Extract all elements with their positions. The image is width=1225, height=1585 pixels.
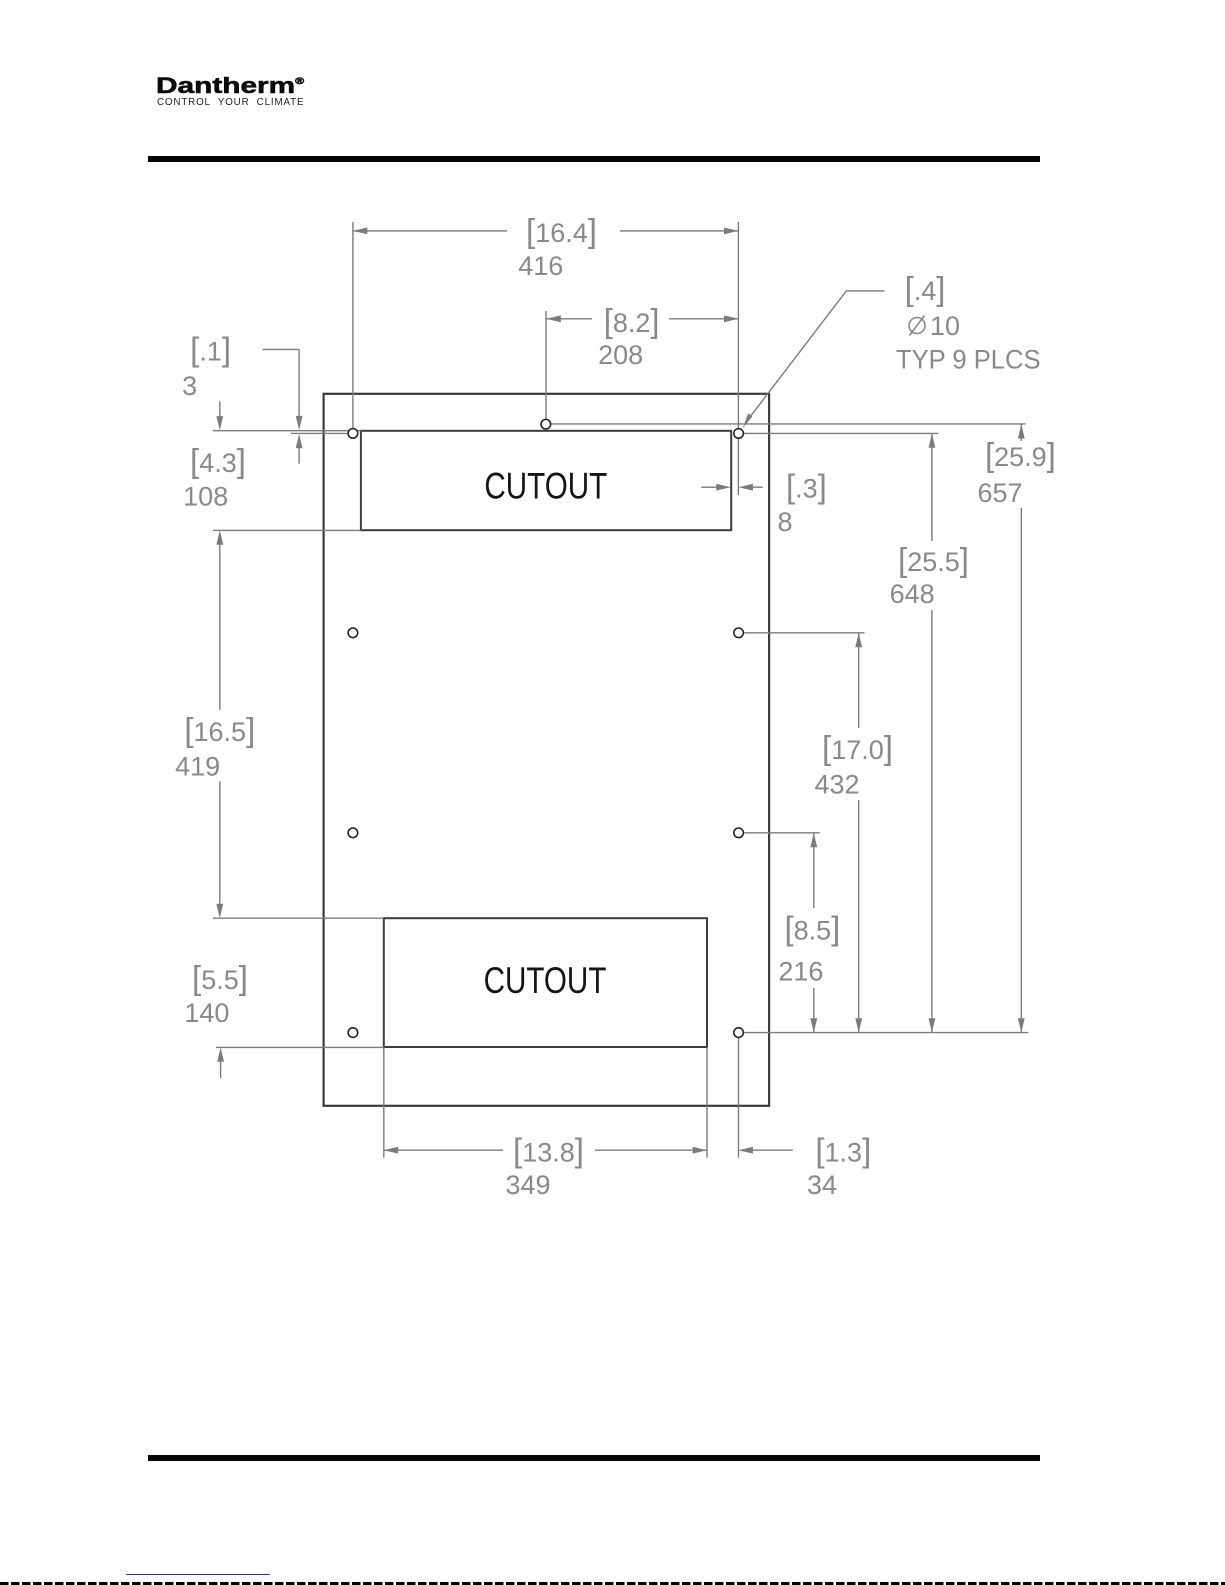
- dimension [13.8] 349 bottom: [384, 1149, 707, 1151]
- svg-text:10: 10: [930, 311, 960, 341]
- svg-text:432: 432: [814, 770, 859, 800]
- svg-text:208: 208: [598, 340, 643, 370]
- extension line: cutout1 top edge leftwards: [213, 430, 361, 432]
- extension line: top corner hole row leftwards: [291, 432, 348, 434]
- footnote blue line: [126, 1574, 270, 1576]
- extension line: bottom hole row rightwards: [744, 1032, 1029, 1034]
- dimension [1.3] 34: [753, 1149, 793, 1151]
- svg-text:[8.5]: [8.5]: [784, 910, 840, 947]
- extension line: cutout2 bottom edge leftwards: [216, 1046, 384, 1048]
- extension line: top left hole column: [352, 222, 354, 428]
- hole bottom-right: [734, 1028, 744, 1038]
- svg-text:419: 419: [175, 752, 220, 782]
- svg-text:416: 416: [518, 251, 563, 281]
- hole row2 right: [734, 628, 744, 638]
- svg-text:[1.3]: [1.3]: [815, 1132, 871, 1169]
- extension line: right hole column below hole: [737, 439, 739, 495]
- dimension [17.0] 432: [858, 633, 860, 1032]
- extension line: top corner hole row rightwards: [744, 432, 939, 434]
- svg-text:3: 3: [182, 371, 197, 401]
- svg-text:[17.0]: [17.0]: [822, 729, 893, 766]
- svg-text:657: 657: [977, 478, 1022, 508]
- svg-text:[5.5]: [5.5]: [192, 959, 248, 996]
- leader for hole callout: [750, 291, 885, 417]
- svg-text:34: 34: [807, 1170, 837, 1200]
- svg-text:[25.9]: [25.9]: [985, 436, 1056, 473]
- svg-text:[25.5]: [25.5]: [898, 541, 969, 578]
- hole top-middle: [541, 419, 551, 429]
- hole callout diameter symbol: [909, 318, 925, 334]
- dimension [25.5] 648: [931, 434, 933, 1033]
- hole row2 left: [348, 628, 358, 638]
- cutout 1 rectangle: [361, 431, 731, 530]
- svg-text:[8.2]: [8.2]: [604, 302, 660, 339]
- dimension [25.9] 657 right outer: [1020, 425, 1022, 1033]
- extension line: cutout2 right edge downwards: [706, 1047, 708, 1157]
- extension line: cutout2 top edge leftwards: [213, 917, 384, 919]
- svg-text:349: 349: [505, 1170, 550, 1200]
- bottom horizontal rule: [148, 1455, 1040, 1461]
- extension line: row3 right hole rightwards: [744, 832, 820, 834]
- svg-text:[4.3]: [4.3]: [190, 442, 246, 479]
- dimension [4.3] 108: [219, 401, 221, 417]
- hole top-right: [734, 429, 744, 439]
- dimension [16.4] 416 top: [353, 230, 739, 232]
- hole row3 right: [734, 828, 744, 838]
- svg-text:[13.8]: [13.8]: [513, 1132, 584, 1169]
- extension line: cutout1 bottom edge leftwards: [213, 529, 361, 531]
- svg-text:8: 8: [777, 507, 792, 537]
- svg-text:CUTOUT: CUTOUT: [484, 465, 607, 507]
- extension line: cutout2 left edge downwards: [383, 1047, 385, 1157]
- dimension [16.5] 419: [219, 545, 221, 904]
- svg-text:[16.5]: [16.5]: [184, 711, 255, 748]
- hole bottom-left: [348, 1028, 358, 1038]
- cutout 2 rectangle: [384, 918, 707, 1047]
- extension line: bottom right hole column downwards: [738, 1038, 740, 1158]
- svg-text:648: 648: [890, 579, 935, 609]
- page boundary dashed line: [0, 1582, 1225, 1585]
- hole top-left: [348, 429, 358, 439]
- dimension [8.5] 216: [813, 833, 815, 1032]
- svg-text:[.3]: [.3]: [786, 468, 827, 505]
- panel outline: [324, 394, 769, 1106]
- svg-text:108: 108: [183, 482, 228, 512]
- Dantherm logo wordmark: [156, 73, 304, 99]
- svg-text:CUTOUT: CUTOUT: [484, 960, 607, 1002]
- extension line: row2 right hole rightwards: [744, 632, 865, 634]
- dimension [.3] 8: [701, 486, 762, 488]
- extension line: middle hole row rightwards: [551, 423, 1026, 425]
- svg-text:TYP 9 PLCS: TYP 9 PLCS: [896, 345, 1041, 375]
- svg-text:140: 140: [184, 998, 229, 1028]
- extension line: top middle hole column: [545, 311, 547, 419]
- dimension [5.5] 140: [220, 1062, 222, 1078]
- logo tagline CONTROL YOUR CLIMATE: [157, 97, 304, 108]
- extension line: top right hole column: [737, 222, 739, 428]
- dimension [8.2] 208: [546, 318, 738, 320]
- top horizontal rule: [148, 156, 1040, 162]
- svg-text:[16.4]: [16.4]: [526, 212, 597, 249]
- svg-text:[.1]: [.1]: [190, 331, 231, 368]
- hole row3 left: [348, 828, 358, 838]
- dimension [.1] 3 leader and arrows: [263, 349, 300, 463]
- svg-text:[.4]: [.4]: [905, 270, 946, 307]
- svg-text:216: 216: [778, 957, 823, 987]
